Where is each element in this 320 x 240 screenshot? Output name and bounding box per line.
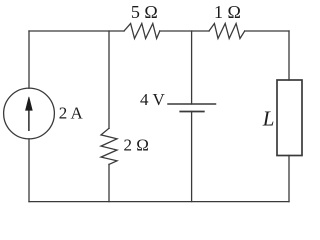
resistor 1ohm zigzag	[209, 24, 245, 39]
resistor 5ohm zigzag	[124, 24, 160, 39]
svg-text:2 A: 2 A	[59, 103, 84, 122]
svg-text:L: L	[262, 106, 275, 130]
wire right branch upper	[288, 31, 290, 80]
wire top-left segment	[29, 30, 124, 32]
wire right branch lower	[288, 156, 290, 202]
current source circle	[4, 88, 55, 139]
battery long plate	[168, 103, 216, 105]
wire middle branch lower	[108, 164, 110, 201]
svg-text:2 Ω: 2 Ω	[124, 135, 149, 154]
current source arrow	[26, 97, 33, 131]
wire top-middle segment	[160, 30, 209, 32]
wire top-right segment	[245, 30, 289, 32]
wire left branch upper	[28, 31, 30, 88]
svg-text:4 V: 4 V	[140, 90, 165, 109]
svg-text:1 Ω: 1 Ω	[214, 2, 241, 22]
wire battery branch upper	[191, 31, 193, 104]
inductor L box	[277, 80, 302, 156]
wire middle branch upper	[108, 31, 110, 128]
wire bottom rail	[29, 201, 289, 203]
wire left branch lower	[28, 139, 30, 202]
wire battery branch lower	[191, 112, 193, 202]
battery short plate	[180, 111, 204, 113]
svg-text:5 Ω: 5 Ω	[131, 2, 158, 22]
resistor 2ohm zigzag	[101, 128, 117, 164]
